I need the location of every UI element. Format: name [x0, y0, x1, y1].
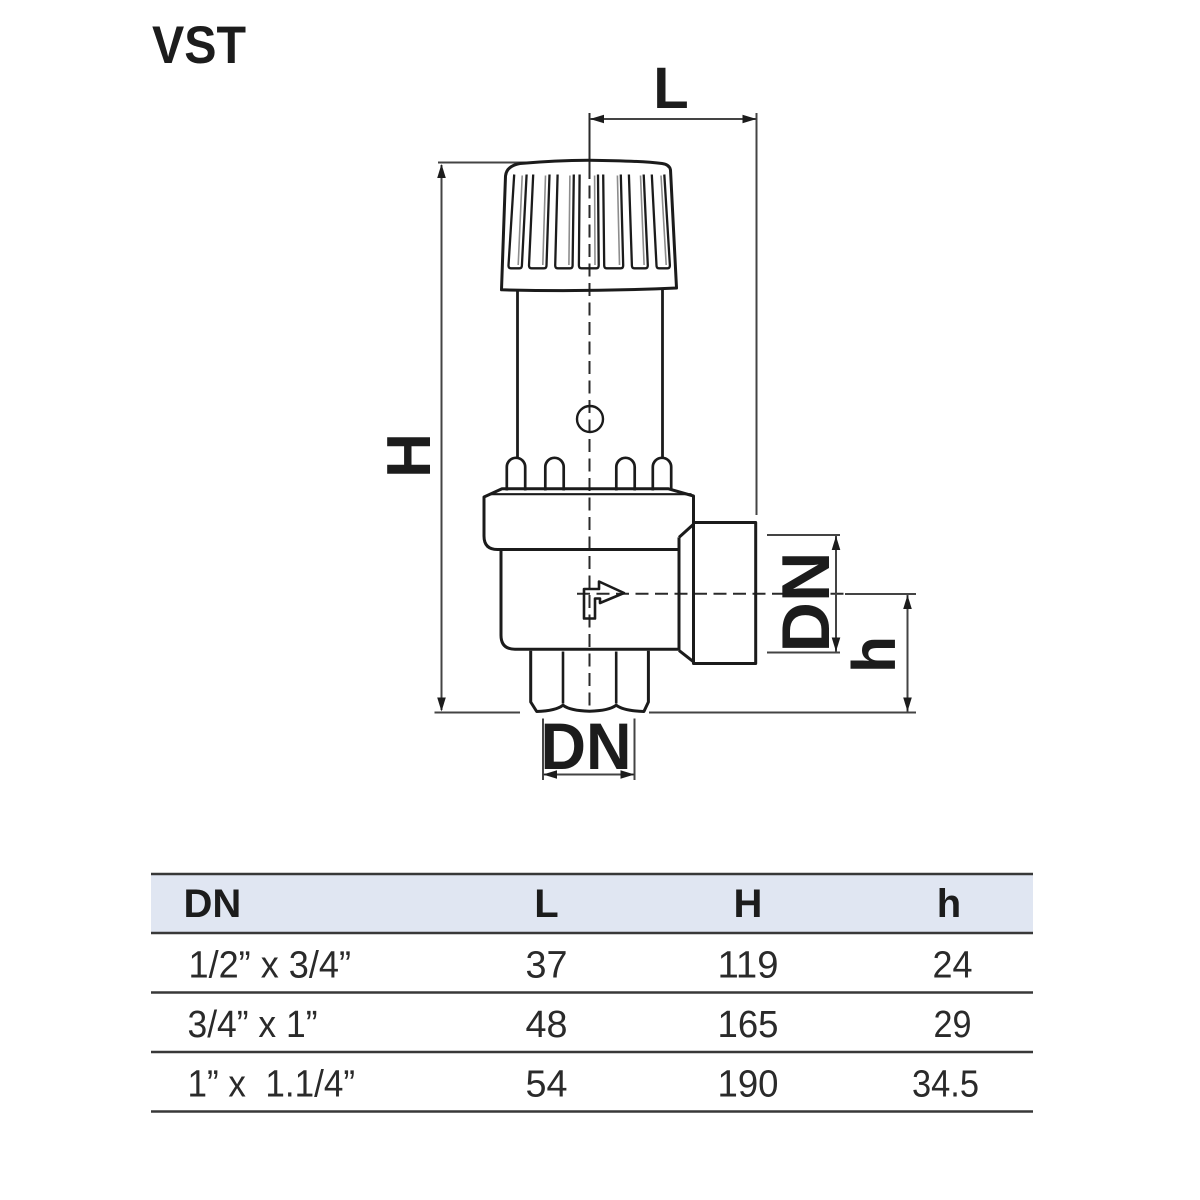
table header row — [184, 882, 962, 926]
svg-text:DN: DN — [541, 709, 632, 783]
table row 1 — [189, 944, 973, 986]
spring coil 3 — [616, 458, 634, 491]
table row 3 — [188, 1063, 980, 1105]
centerline vertical (valve axis) — [589, 113, 591, 166]
outlet port chamfer bottom — [679, 650, 694, 661]
bonnet neck right wall — [661, 289, 664, 458]
table header band — [151, 875, 1033, 933]
table rule top — [151, 874, 1033, 1112]
knob cap rib shading lines — [518, 176, 666, 266]
centerline horizontal (outlet axis) — [577, 593, 848, 595]
spring coil 4 — [653, 458, 671, 491]
svg-text:h: h — [840, 636, 908, 673]
spring coil 1 — [507, 458, 525, 491]
outlet port body — [694, 523, 756, 664]
svg-text:165: 165 — [718, 1004, 779, 1046]
svg-text:24: 24 — [933, 944, 973, 986]
svg-text:H: H — [734, 882, 763, 926]
hex nut facet line left — [562, 652, 565, 704]
bonnet neck left wall — [516, 291, 519, 458]
svg-text:DN: DN — [768, 552, 844, 653]
svg-text:H: H — [375, 433, 444, 478]
knob cap rib grooves — [509, 175, 670, 269]
svg-text:VST: VST — [152, 16, 246, 75]
svg-text:1” x 1.1/4”: 1” x 1.1/4” — [188, 1063, 356, 1105]
flow direction arrow symbol — [584, 582, 624, 619]
inlet hex nut — [531, 651, 649, 712]
svg-text:h: h — [937, 882, 961, 926]
knob cap outline — [502, 160, 677, 290]
dimension DN (bottom inlet) — [543, 719, 635, 781]
svg-text:3/4” x 1”: 3/4” x 1” — [188, 1004, 318, 1046]
dimension DN (side outlet) — [767, 535, 840, 653]
body right wall — [678, 537, 681, 650]
outlet port chamfer top — [679, 524, 694, 537]
svg-text:54: 54 — [526, 1063, 568, 1105]
spring coil 2 — [545, 458, 563, 491]
svg-text:48: 48 — [526, 1004, 568, 1046]
svg-text:34.5: 34.5 — [912, 1063, 979, 1105]
bonnet flange outline — [484, 489, 694, 550]
vent hole circle — [577, 406, 603, 432]
svg-text:29: 29 — [934, 1004, 972, 1046]
valve body outline — [501, 550, 679, 650]
dimension L — [590, 113, 757, 515]
svg-text:190: 190 — [718, 1063, 779, 1105]
svg-text:L: L — [653, 56, 688, 121]
hex nut facet line right — [615, 652, 618, 704]
svg-text:119: 119 — [718, 944, 779, 986]
bonnet flange inner rim line — [489, 493, 692, 495]
dimension h — [649, 594, 916, 713]
svg-text:1/2” x 3/4”: 1/2” x 3/4” — [189, 944, 352, 986]
svg-text:37: 37 — [526, 944, 568, 986]
svg-text:DN: DN — [184, 882, 242, 926]
dimension H — [435, 163, 541, 713]
table row 2 — [188, 1004, 972, 1046]
svg-text:L: L — [534, 882, 558, 926]
